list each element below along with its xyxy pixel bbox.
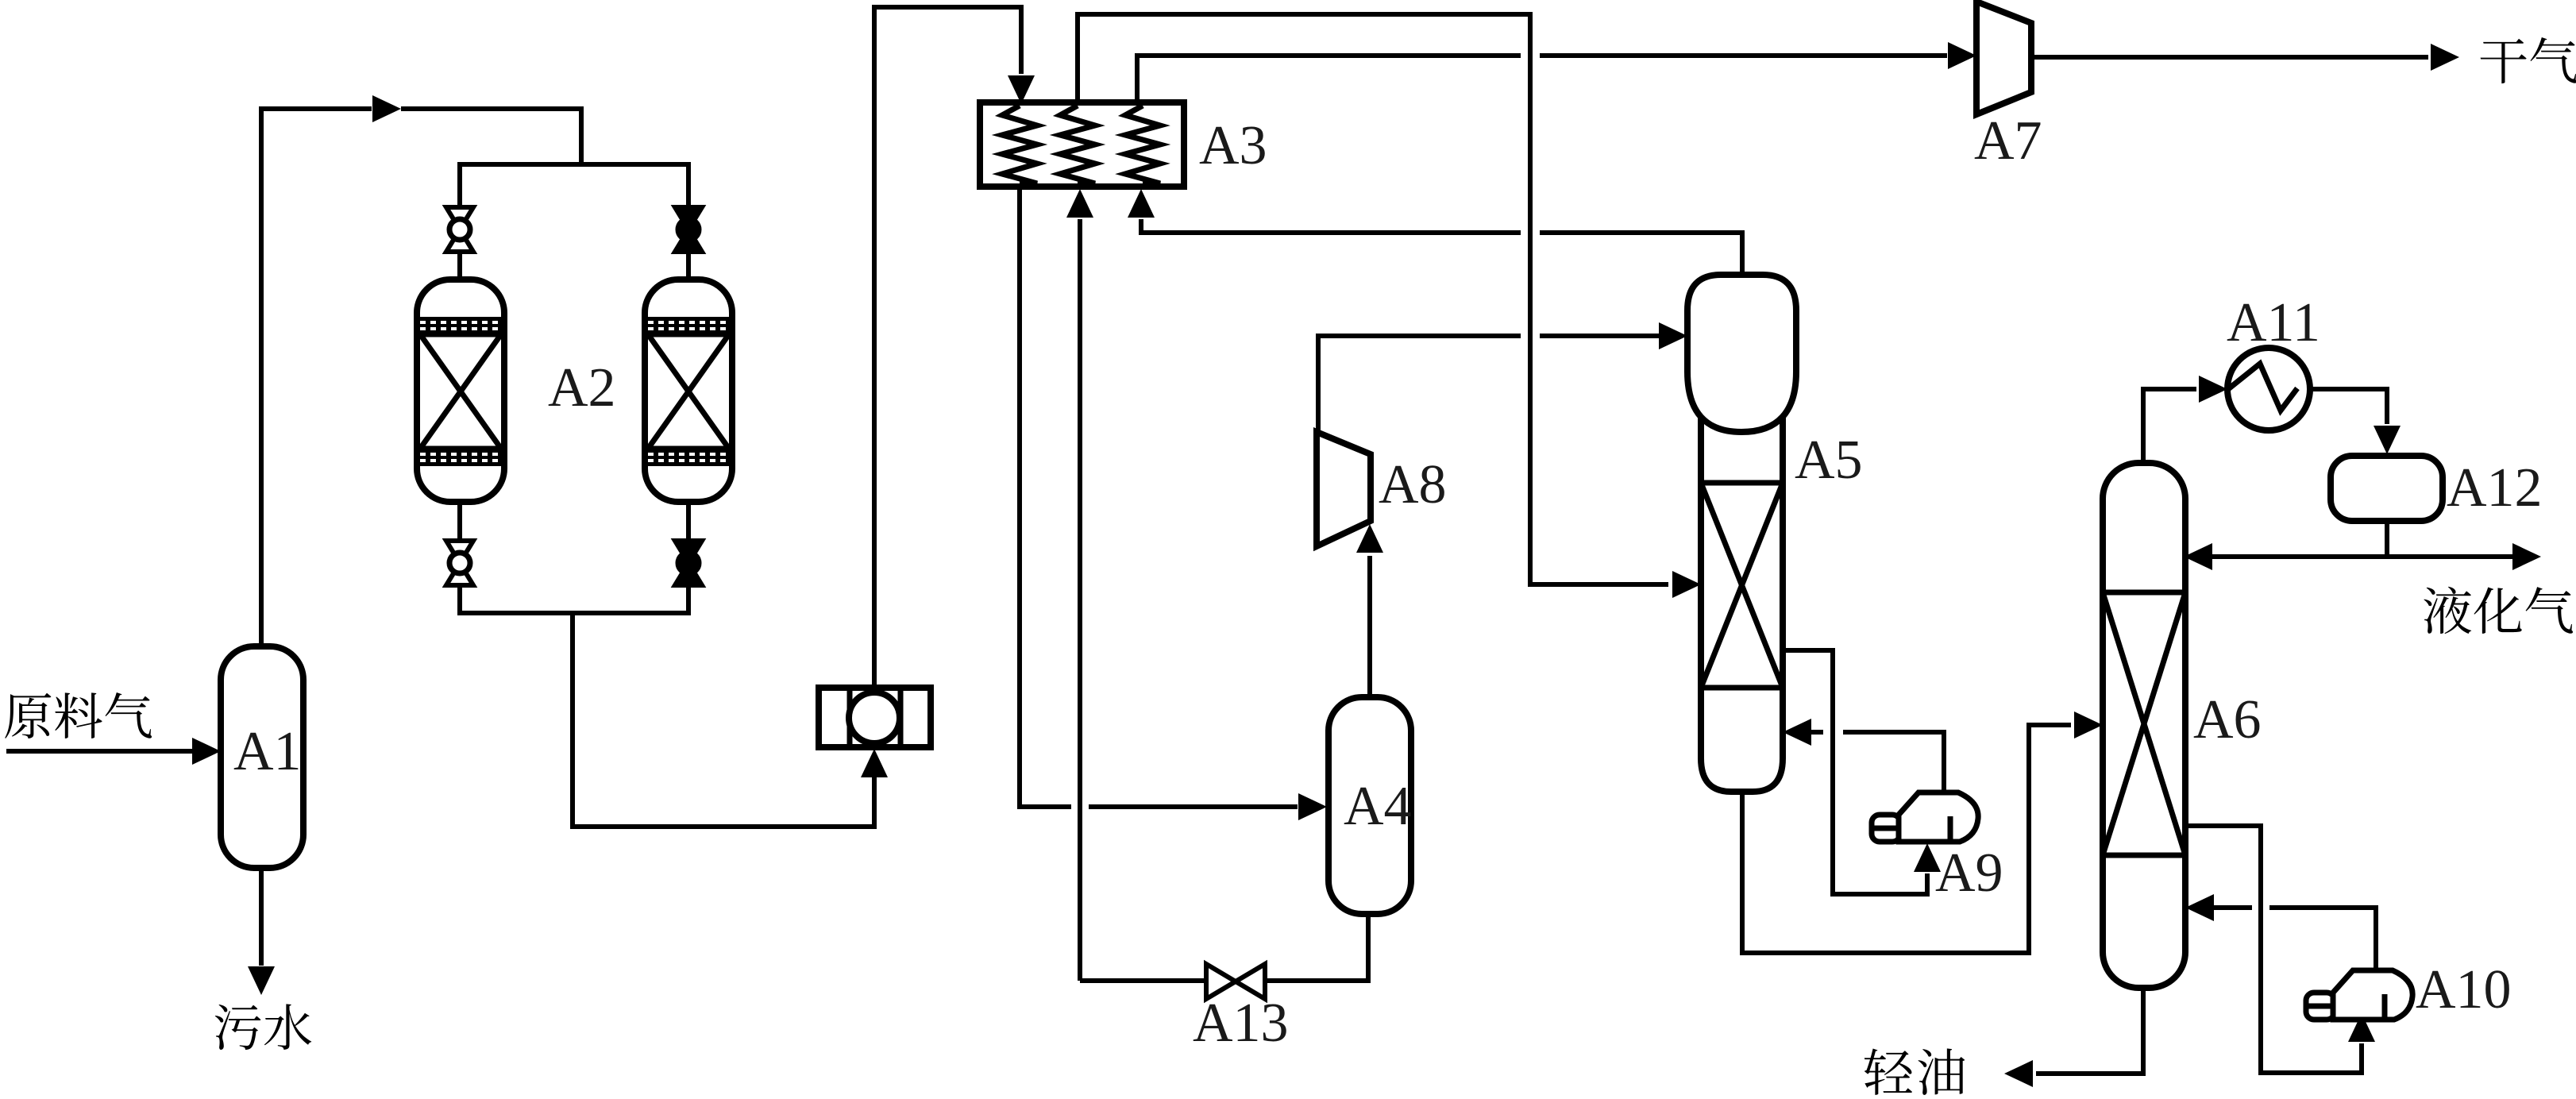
svg-text:A5: A5 (1795, 430, 1863, 491)
vessel A4 knockout drum (1328, 697, 1411, 914)
wire A12 bottom outlet (2385, 521, 2389, 557)
arrow feed into A4 (1298, 793, 1327, 820)
arrow reflux into A6 (2184, 543, 2212, 570)
column A6 body (2103, 463, 2185, 988)
svg-text:A4: A4 (1344, 776, 1412, 837)
arrow feed into A5 packing section (1672, 571, 1701, 598)
wire blower discharge loop into A3 first pass (874, 7, 1021, 688)
valve A2 top-left (open) (446, 207, 473, 252)
wire A4 overhead to A8 suction (1367, 556, 1372, 696)
valve A2 bottom-right (filled) (675, 541, 702, 585)
wire A5 overhead into A3 pass3 (right of crossing) (1540, 233, 1742, 273)
coil 2 in A3 (1060, 106, 1095, 183)
wire A10 discharge (left of crossing) (2211, 905, 2252, 910)
heat exchanger A3 body (980, 102, 1184, 187)
blower box with ball (819, 688, 931, 747)
vessel A2 right adsorber (645, 280, 732, 502)
packing band right adsorber bottom (648, 449, 729, 466)
arrow up into A3 pass3 (1128, 189, 1155, 218)
svg-text:A6: A6 (2193, 689, 2262, 750)
valve A2 bottom-left (open) (446, 541, 473, 585)
svg-text:A11: A11 (2227, 292, 2320, 353)
arrow into A11 (2199, 376, 2227, 403)
wire A4 bottoms to valve A13 (1080, 978, 1205, 983)
svg-text:A8: A8 (1379, 454, 1447, 515)
arrow feed into A6 (2074, 711, 2103, 738)
label raw gas 原料气 (5, 693, 51, 738)
wire right adsorber bottom stem (686, 502, 691, 542)
packing band right adsorber top (648, 317, 729, 334)
wire A3 pass1 outlet toward A4 (right of crossing) (1089, 804, 1298, 809)
arrow up into A3 pass2 (1066, 189, 1093, 218)
wire header continues down to A2 top header (401, 109, 581, 164)
wire A1 bottom water outlet (259, 866, 264, 966)
wire A8 discharge to A5 dome (left of crossing) (1318, 336, 1521, 434)
arrow on A1 overhead line (372, 95, 401, 122)
X packing in A5 (1701, 483, 1783, 688)
arrow down into A3 (1008, 75, 1035, 104)
arrow sewage out (248, 966, 275, 995)
svg-text:A10: A10 (2416, 959, 2512, 1020)
wire stem into left adsorber top (457, 251, 462, 280)
wire A5 bottoms to A6 feed (1742, 725, 2071, 953)
coil 1 in A3 (1002, 106, 1037, 183)
wire A3 pass2 outlet over the top and down into A5 mid (1078, 14, 1668, 584)
wire A7 outlet dry gas (2031, 55, 2428, 60)
wire A5 side draw to pump A9 suction (1783, 650, 1927, 894)
wire A4 bottoms riser into A3 pass2 (1078, 219, 1082, 981)
condenser A11 (2227, 348, 2310, 430)
arrow into A6 lower section (2185, 894, 2214, 921)
compressor A7 (1976, 2, 2031, 114)
label LPG 液化气 (2424, 587, 2471, 634)
svg-text:A2: A2 (548, 357, 616, 418)
wire A10 discharge to A6 (right of crossing) (2269, 908, 2376, 970)
svg-text:A3: A3 (1199, 115, 1267, 176)
packing band left adsorber top (420, 317, 501, 334)
arrow into A5 lower section (1783, 719, 1811, 746)
svg-text:A12: A12 (2447, 457, 2543, 519)
arrow feed into A1 (192, 738, 221, 765)
wire A6 overhead to condenser A11 (2143, 389, 2196, 461)
svg-text:A7: A7 (1974, 110, 2042, 172)
arrow up into A9 (1914, 843, 1941, 872)
arrow up into A10 (2348, 1013, 2375, 1042)
X packing in A6 (2103, 592, 2185, 855)
arrow dry gas product (2431, 44, 2459, 71)
pump A9 (1872, 792, 1978, 842)
coil 3 in A3 (1125, 106, 1160, 183)
wire A9 discharge stub (left of crossing) (1809, 730, 1823, 735)
wire reflux / LPG product header (2211, 554, 2514, 559)
wire raw gas feed into A1 (6, 749, 192, 754)
arrow into A5 dome (1659, 322, 1687, 349)
arrow LPG product (2512, 543, 2541, 570)
valve A13 (1206, 964, 1265, 999)
label dry gas 干气 (2481, 39, 2527, 83)
wire A2 bottom header (460, 584, 688, 613)
wire A1 overhead riser to A2 header (261, 109, 372, 650)
svg-text:A9: A9 (1935, 843, 2003, 904)
X packing left adsorber (420, 334, 501, 449)
wire A8 discharge to A5 dome (right of crossing) (1540, 334, 1659, 338)
svg-text:A13: A13 (1193, 993, 1289, 1054)
packing band left adsorber bottom (420, 449, 501, 466)
wire A9 discharge back to A5 (right of crossing) (1843, 732, 1944, 791)
wire left adsorber bottom stem (457, 502, 462, 542)
wire A2 top header with two branches (460, 164, 688, 210)
label light oil 轻油 (1865, 1049, 1912, 1095)
wire A3 pass3 outlet to dry-gas line (left of crossing) (1137, 56, 1521, 104)
column A5 dome (1687, 275, 1796, 432)
wire dry-gas line to compressor A7 (1540, 53, 1947, 58)
vessel A1 separator (221, 646, 303, 868)
valve A2 top-right (filled) (675, 207, 702, 252)
wire A6 side draw to pump A10 suction (2185, 826, 2362, 1073)
wire A5 overhead into A3 pass3 (left of crossing) (1141, 219, 1521, 233)
compressor A8 (1317, 432, 1371, 546)
wire valve A13 to A4 bottom (1266, 916, 1368, 981)
arrow up into A8 (1356, 524, 1383, 553)
wire A3 pass1 outlet down toward A4 (left of crossing) (1020, 188, 1071, 807)
arrow into A7 (1948, 42, 1976, 69)
X packing right adsorber (648, 334, 729, 449)
column A5 body (1701, 401, 1783, 792)
wire stem into right adsorber top (686, 251, 691, 280)
wire A2 bottoms down to recycle blower suction (573, 613, 874, 827)
wire A11 outlet to drum A12 (2309, 389, 2387, 424)
svg-text:A1: A1 (233, 721, 302, 782)
vessel A2 left adsorber (417, 280, 504, 502)
label sewage 污水 (215, 1005, 261, 1050)
wire A6 bottoms light oil (2036, 986, 2143, 1074)
arrow light oil product (2004, 1060, 2033, 1087)
arrow into recycle blower (861, 749, 888, 777)
pump A10 (2306, 970, 2412, 1020)
drum A12 reflux accumulator (2331, 456, 2443, 521)
arrow down into A12 (2374, 426, 2401, 454)
